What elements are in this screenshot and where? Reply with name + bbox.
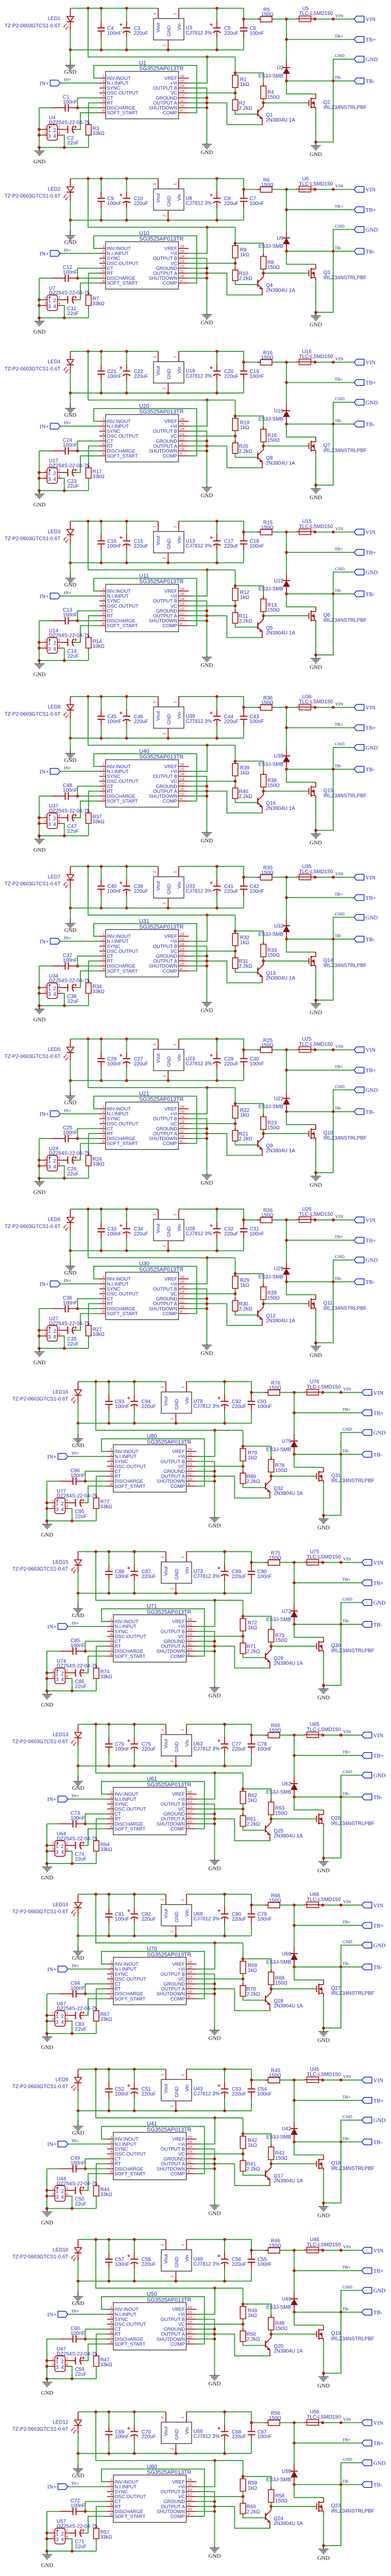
svg-text:GND: GND xyxy=(174,1399,179,1410)
pin 2 xyxy=(58,817,62,818)
transistor Q28 2N3904 xyxy=(265,1995,266,2002)
svg-text:220uF: 220uF xyxy=(232,2092,246,2097)
wire VC xyxy=(189,781,235,782)
ground (IC) xyxy=(207,656,208,657)
svg-text:LED1: LED1 xyxy=(48,16,61,22)
svg-text:22uF: 22uF xyxy=(67,998,79,1004)
pin 10 SHUTDOWN xyxy=(179,1308,189,1309)
svg-text:SOFT_START: SOFT_START xyxy=(114,2171,145,2176)
svg-text:7: 7 xyxy=(103,105,105,108)
pin 16 VREF xyxy=(179,421,189,422)
svg-text:14: 14 xyxy=(188,1628,192,1632)
svg-text:16: 16 xyxy=(188,2478,192,2482)
node R divider junction xyxy=(234,950,237,953)
wire CT xyxy=(86,1641,107,1651)
wire C6 column xyxy=(251,1905,252,1909)
svg-text:1kΩ: 1kΩ xyxy=(248,2143,257,2148)
capacitor C27 220uF xyxy=(126,1039,127,1052)
pin 4 xyxy=(58,134,62,135)
svg-text:3: 3 xyxy=(44,302,46,306)
svg-text:100nF: 100nF xyxy=(63,1300,77,1306)
ground (LED) xyxy=(78,2291,79,2296)
svg-text:100nF: 100nF xyxy=(258,2434,272,2440)
svg-text:4: 4 xyxy=(110,2150,112,2154)
wire VIN input rail xyxy=(179,1209,244,1220)
node LED cathode junction xyxy=(77,1592,80,1595)
svg-text:10: 10 xyxy=(188,1820,192,1824)
svg-text:220uF: 220uF xyxy=(142,1917,156,1922)
wire LED to ground xyxy=(78,2111,79,2121)
pin 15 +Vi xyxy=(186,1456,197,1457)
svg-text:Vout: Vout xyxy=(163,1739,168,1749)
svg-text:U79: U79 xyxy=(282,1438,292,1444)
capacitor C34 220uF xyxy=(126,1209,127,1222)
svg-text:15: 15 xyxy=(180,1280,184,1284)
svg-text:6: 6 xyxy=(103,788,105,791)
svg-text:IN+: IN+ xyxy=(40,594,49,600)
wire +12V feed xyxy=(88,697,235,745)
pin 12 GROUND xyxy=(179,611,189,612)
svg-text:150Ω: 150Ω xyxy=(261,525,274,531)
svg-text:U12: U12 xyxy=(274,578,283,584)
svg-text:TB-: TB- xyxy=(335,933,342,938)
resistor R9 1k xyxy=(235,243,236,246)
capacitor C94 220uF xyxy=(134,1382,135,1395)
svg-text:12: 12 xyxy=(180,953,184,956)
svg-text:1: 1 xyxy=(103,933,105,937)
pin 15 +Vi xyxy=(179,771,189,772)
svg-text:GND: GND xyxy=(41,2390,54,2396)
op-amp controller U20 SG3525AP013TR xyxy=(106,415,179,462)
svg-text:VIN: VIN xyxy=(343,2074,351,2079)
node gate junction xyxy=(262,1302,265,1306)
svg-text:10: 10 xyxy=(180,962,184,966)
wire SHUTDOWN xyxy=(197,2338,215,2340)
svg-text:1: 1 xyxy=(44,1327,46,1330)
pin 3 SYNC xyxy=(99,258,106,259)
svg-text:GND: GND xyxy=(317,2555,330,2561)
svg-text:4: 4 xyxy=(58,475,60,479)
node LED cathode junction xyxy=(77,2109,80,2112)
capacitor C57 100nF xyxy=(108,2240,109,2252)
wire GROUND pin xyxy=(189,1128,207,1129)
svg-text:220uF: 220uF xyxy=(134,1231,148,1237)
svg-text:GND: GND xyxy=(72,1955,84,1961)
pin 4 OSC.OUTPUT xyxy=(107,1978,113,1979)
svg-text:U19: U19 xyxy=(274,409,284,414)
svg-text:12: 12 xyxy=(180,607,184,611)
node gate junction xyxy=(269,2333,273,2336)
wire diode anode to drain xyxy=(286,251,316,264)
svg-text:1: 1 xyxy=(181,1556,185,1558)
svg-text:2: 2 xyxy=(66,1669,68,1673)
svg-text:11: 11 xyxy=(180,443,184,446)
capacitor C53 220uF xyxy=(224,2069,225,2082)
pin 2 xyxy=(65,2190,70,2191)
svg-text:100nF: 100nF xyxy=(63,99,77,105)
pin 2 N.I.INPUT xyxy=(107,1799,113,1800)
pin 8 SOFT_START xyxy=(107,2173,113,2174)
wire OUTPUT A xyxy=(189,616,262,637)
svg-text:IN+: IN+ xyxy=(72,1793,79,1799)
wire TB- to MOSFET source xyxy=(324,2485,341,2546)
svg-text:TB-: TB- xyxy=(366,421,375,428)
svg-text:1 2: 1 2 xyxy=(56,1501,64,1507)
wire LED to ground xyxy=(78,1423,79,1434)
wire gate xyxy=(263,1303,309,1304)
svg-text:16: 16 xyxy=(188,2306,192,2310)
connector U47 DZ254S-22-04-75 xyxy=(55,2356,65,2371)
svg-text:VIN: VIN xyxy=(335,526,344,531)
wire diode anode to drain xyxy=(286,1282,316,1295)
svg-text:Vin: Vin xyxy=(176,536,182,543)
svg-text:TZ-P2-0603GTCS1-0.6T: TZ-P2-0603GTCS1-0.6T xyxy=(5,366,61,372)
wire R2 to Q base xyxy=(235,969,258,973)
svg-text:1: 1 xyxy=(174,13,177,15)
pin 9 COMP xyxy=(186,1486,197,1487)
wire CT xyxy=(78,1129,99,1139)
svg-text:12: 12 xyxy=(188,2326,192,2329)
svg-text:13: 13 xyxy=(188,1633,192,1637)
svg-text:13: 13 xyxy=(188,1463,192,1467)
svg-text:9: 9 xyxy=(180,452,182,456)
svg-text:13: 13 xyxy=(180,1291,184,1294)
svg-text:VIN: VIN xyxy=(335,701,344,706)
svg-text:4: 4 xyxy=(66,2018,68,2021)
svg-text:IRLZ34NSTRLPBF: IRLZ34NSTRLPBF xyxy=(324,105,367,111)
wire LED to ground xyxy=(78,1594,79,1604)
svg-text:Vout: Vout xyxy=(155,23,161,32)
svg-text:220uF: 220uF xyxy=(142,2262,156,2267)
svg-text:GND: GND xyxy=(166,714,172,724)
port VIN xyxy=(362,2077,371,2083)
svg-text:150Ω: 150Ω xyxy=(275,2156,287,2161)
wire OUTPUT A xyxy=(189,1303,262,1325)
svg-text:5: 5 xyxy=(103,1125,105,1129)
node CT/DISCHARGE junction xyxy=(84,2337,87,2341)
svg-text:1: 1 xyxy=(110,1961,112,1964)
ground (bottom left) xyxy=(39,1348,40,1351)
capacitor C47 22uF xyxy=(62,817,68,818)
svg-text:1kΩ: 1kΩ xyxy=(248,1798,257,1804)
svg-text:2: 2 xyxy=(66,2187,68,2191)
pin 15 +Vi xyxy=(186,2144,197,2145)
svg-text:1 2: 1 2 xyxy=(48,1329,57,1334)
pin 3 SYNC xyxy=(107,2148,113,2149)
svg-text:TB-: TB- xyxy=(343,1618,350,1623)
capacitor C46 220uF xyxy=(126,697,127,709)
svg-text:IN+: IN+ xyxy=(72,1450,79,1455)
resistor R33 150 xyxy=(263,941,264,944)
svg-text:100nF: 100nF xyxy=(115,1404,129,1410)
svg-text:2.2kΩ: 2.2kΩ xyxy=(239,964,252,970)
diode U9 ES3J-SMB xyxy=(286,231,287,238)
capacitor C33 100nF xyxy=(100,1209,101,1222)
wire VIN input rail xyxy=(186,2240,251,2250)
wire VC xyxy=(197,1808,243,1809)
svg-text:GND: GND xyxy=(33,847,46,853)
svg-text:U69: U69 xyxy=(282,1951,292,1957)
svg-text:11: 11 xyxy=(180,958,184,961)
pin 3 xyxy=(49,1678,55,1679)
svg-text:U32: U32 xyxy=(274,923,283,929)
pin 15 +Vi xyxy=(186,2314,197,2315)
svg-text:GND: GND xyxy=(366,915,378,921)
wire RT to R xyxy=(96,1476,107,1498)
node +Vi tap xyxy=(206,226,209,229)
svg-text:GND: GND xyxy=(366,570,378,576)
svg-text:100nF: 100nF xyxy=(107,719,122,724)
pin 14 OUTPUT B xyxy=(186,1461,197,1462)
svg-text:22uF: 22uF xyxy=(75,2544,87,2550)
resistor R19 1k xyxy=(235,416,236,419)
pin 13 VC xyxy=(186,2154,197,2155)
resistor R45 150ohm xyxy=(265,2079,268,2080)
svg-text:12: 12 xyxy=(180,437,184,441)
svg-text:GND: GND xyxy=(373,2117,386,2124)
svg-text:220uF: 220uF xyxy=(232,1747,246,1752)
svg-text:3: 3 xyxy=(103,1115,105,1119)
svg-text:100nF: 100nF xyxy=(115,2434,129,2440)
wire +12V rail xyxy=(78,1381,166,1382)
svg-text:GND: GND xyxy=(33,672,46,678)
svg-text:SOFT_START: SOFT_START xyxy=(107,798,138,804)
wire pin4 to ground xyxy=(69,2539,72,2551)
wire pin4 to ground xyxy=(69,1509,72,1521)
wire diode anode to drain xyxy=(294,1797,324,1810)
svg-text:IN+: IN+ xyxy=(64,1108,71,1113)
pin 4 xyxy=(65,2021,70,2022)
pin 13 VC xyxy=(186,1636,197,1637)
port TB+ xyxy=(362,1753,371,1758)
wire CT xyxy=(86,2501,107,2511)
pin 2 N.I.INPUT xyxy=(99,771,106,772)
svg-text:9: 9 xyxy=(180,109,182,113)
svg-text:TZ-P2-0603GTCS1-0.6T: TZ-P2-0603GTCS1-0.6T xyxy=(5,193,61,199)
resistor R77 33k xyxy=(96,1495,97,1498)
wire GROUND pin xyxy=(189,956,207,957)
svg-text:13: 13 xyxy=(180,948,184,952)
wire pin4 to ground xyxy=(61,135,64,147)
svg-text:9: 9 xyxy=(180,280,182,283)
wire R2 to Q base xyxy=(243,1996,265,2001)
wire drain xyxy=(323,2325,324,2327)
svg-text:15: 15 xyxy=(188,1453,192,1456)
connector U24 DZ254S-22-04-75 xyxy=(47,1156,57,1171)
wire TB+ xyxy=(294,1925,362,1926)
svg-text:TB+: TB+ xyxy=(373,1580,384,1586)
pin 9 COMP xyxy=(186,1828,197,1829)
pin 9 COMP xyxy=(179,625,189,626)
wire GND port to TB- net xyxy=(341,1775,362,1797)
port IN+ xyxy=(58,1453,68,1459)
svg-text:2.2kΩ: 2.2kΩ xyxy=(239,619,252,624)
node +Vi tap xyxy=(206,568,209,571)
pin 6 RT xyxy=(99,1133,106,1134)
svg-text:100nF: 100nF xyxy=(107,1061,122,1067)
capacitor C11 22uF xyxy=(62,299,68,300)
svg-text:220uF: 220uF xyxy=(232,1574,246,1580)
svg-text:2: 2 xyxy=(171,2105,174,2107)
pin 7 DISCHARGE xyxy=(99,620,106,621)
svg-text:1: 1 xyxy=(174,701,177,703)
pin 12 GROUND xyxy=(179,1298,189,1299)
svg-text:Vin: Vin xyxy=(176,1054,182,1061)
svg-text:1: 1 xyxy=(181,2416,185,2418)
pin 1 INV.INOUT xyxy=(107,2481,113,2482)
resistor R71 2.2k xyxy=(243,1640,244,1643)
svg-text:Vin: Vin xyxy=(184,1397,190,1404)
svg-text:TB-: TB- xyxy=(343,1448,350,1453)
pin 16 VREF xyxy=(186,1963,197,1964)
svg-text:8: 8 xyxy=(103,798,105,801)
svg-text:IN+: IN+ xyxy=(40,769,49,775)
wire OUTPUT B to gnd bus xyxy=(189,601,207,655)
wire +Vi xyxy=(197,2288,215,2314)
svg-text:U72: U72 xyxy=(282,1608,291,1614)
svg-text:GND: GND xyxy=(335,396,345,401)
resistor R75 150ohm xyxy=(265,1562,268,1563)
capacitor C18 100nF xyxy=(243,534,244,536)
pin 2 N.I.INPUT xyxy=(107,1456,113,1457)
pin 1 xyxy=(49,2190,55,2191)
pin 2 xyxy=(58,1330,62,1331)
transistor Q5 2N3904 xyxy=(257,622,258,629)
ground (bottom left) xyxy=(47,2033,48,2037)
ground (IC) xyxy=(207,313,208,315)
svg-text:2.2kΩ: 2.2kΩ xyxy=(247,2337,260,2343)
svg-text:3: 3 xyxy=(52,2535,54,2539)
svg-text:1: 1 xyxy=(174,871,177,873)
wire bus to diode xyxy=(294,2080,295,2121)
capacitor C72 100nF xyxy=(47,2511,60,2512)
wire TB+ xyxy=(294,1755,362,1756)
svg-text:2: 2 xyxy=(66,1499,68,1503)
svg-text:22uF: 22uF xyxy=(67,829,79,835)
node R top junction xyxy=(243,1773,244,1791)
wire diode anode to drain xyxy=(294,2142,324,2155)
svg-text:2: 2 xyxy=(110,1795,112,1799)
pin 16 VREF xyxy=(179,1278,189,1279)
pin 5 CT xyxy=(99,1128,106,1129)
node diode anode xyxy=(285,592,288,596)
svg-text:LED14: LED14 xyxy=(53,1902,69,1908)
svg-text:5: 5 xyxy=(103,265,105,268)
svg-text:100nF: 100nF xyxy=(71,2503,85,2509)
node gate junction xyxy=(262,272,265,275)
pin 3 SYNC xyxy=(99,1118,106,1119)
resistor R42 1k xyxy=(243,2133,244,2137)
capacitor C31 100nF xyxy=(243,1222,244,1224)
svg-text:10: 10 xyxy=(180,448,184,451)
capacitor C12 100nF xyxy=(39,278,53,279)
port TB- xyxy=(362,1621,371,1627)
pin 9 COMP xyxy=(186,2173,197,2174)
pin 14 OUTPUT B xyxy=(179,88,189,89)
wire SHUTDOWN xyxy=(197,2168,215,2170)
svg-text:3: 3 xyxy=(161,1386,165,1388)
wire CT xyxy=(86,1984,107,1994)
pin 4 xyxy=(58,1335,62,1336)
node C-column tap xyxy=(250,2078,253,2081)
svg-text:SG3525AP013TR: SG3525AP013TR xyxy=(139,66,184,72)
pin 8 SOFT_START xyxy=(99,455,106,456)
node VIN segment joins xyxy=(314,706,317,709)
svg-text:150Ω: 150Ω xyxy=(261,355,274,361)
svg-text:4: 4 xyxy=(58,820,60,824)
svg-text:7: 7 xyxy=(103,617,105,621)
svg-text:GND: GND xyxy=(33,1360,46,1366)
svg-text:220uF: 220uF xyxy=(232,2262,246,2267)
svg-text:VIN: VIN xyxy=(343,1556,351,1562)
node diode anode xyxy=(285,79,288,82)
pin 12 GROUND xyxy=(186,2501,197,2502)
wire VIN input rail xyxy=(179,697,244,707)
diode U42 ES3J-SMB xyxy=(294,2122,295,2129)
svg-text:2N3904U 1A: 2N3904U 1A xyxy=(274,1491,303,1497)
svg-text:VIN: VIN xyxy=(366,16,376,23)
pin 1 xyxy=(49,2015,55,2016)
fuse U76 TLC-LSMD150 xyxy=(307,1389,319,1395)
svg-text:Vin: Vin xyxy=(176,367,182,374)
svg-text:220uF: 220uF xyxy=(134,1061,148,1067)
wire TB- to MOSFET source xyxy=(324,1967,341,2028)
capacitor C79 100nF xyxy=(251,1907,252,1909)
svg-text:TB-: TB- xyxy=(343,2306,350,2311)
pin 10 SHUTDOWN xyxy=(186,1481,197,1482)
wire +12V feed xyxy=(96,1382,243,1431)
pin 10 SHUTDOWN xyxy=(179,278,189,279)
wire CT xyxy=(86,2329,107,2339)
port TB+ xyxy=(354,1238,364,1243)
svg-text:33kΩ: 33kΩ xyxy=(100,2362,112,2368)
svg-text:14: 14 xyxy=(180,428,184,431)
pin 3 xyxy=(42,305,47,306)
pin 2 xyxy=(58,987,62,988)
node R divider junction xyxy=(242,2323,245,2326)
svg-text:GND: GND xyxy=(317,2212,330,2218)
svg-text:SOFT_START: SOFT_START xyxy=(114,2341,145,2347)
connector U17 DZ254S-22-04-75 xyxy=(47,468,57,483)
ground (MOSFET) xyxy=(315,831,316,834)
svg-text:2: 2 xyxy=(110,2311,112,2314)
svg-text:22uF: 22uF xyxy=(67,141,79,146)
svg-text:TB+: TB+ xyxy=(343,1407,351,1412)
port TB- xyxy=(354,1109,364,1114)
svg-text:16: 16 xyxy=(180,933,184,937)
svg-text:CJ7812 3%: CJ7812 3% xyxy=(185,1061,212,1066)
svg-text:150Ω: 150Ω xyxy=(275,2498,287,2504)
pin 16 VREF xyxy=(186,2481,197,2482)
pin 3 xyxy=(49,2538,55,2539)
svg-text:15: 15 xyxy=(180,768,184,772)
pin 6 RT xyxy=(107,1818,113,1819)
svg-text:4: 4 xyxy=(110,2493,112,2497)
wire SOFT_START to C xyxy=(83,2344,107,2361)
node R divider junction xyxy=(242,2153,245,2156)
diode U12 ES3J-SMB xyxy=(286,573,287,581)
svg-text:GND: GND xyxy=(201,1180,213,1187)
resistor R29 1k xyxy=(235,1273,236,1276)
wire RT to R xyxy=(96,1646,107,1668)
pin 3 SYNC xyxy=(99,88,106,89)
wire SHUTDOWN xyxy=(197,1481,215,1482)
pin 11 OUTPUT A xyxy=(179,1133,189,1134)
wire drain xyxy=(315,437,316,439)
node R top junction xyxy=(243,2288,244,2307)
svg-text:220uF: 220uF xyxy=(224,201,239,207)
svg-text:7: 7 xyxy=(103,448,105,451)
